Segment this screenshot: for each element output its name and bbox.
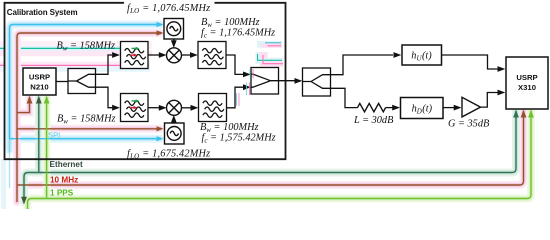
SPI net halo [10, 25, 161, 151]
h_D(t) box U2 [401, 98, 444, 119]
SPI arrow into oscillator O2 [157, 136, 164, 141]
wire N210 to splitter S1 [56, 81, 68, 83]
USRP N210 box [23, 68, 56, 95]
overlay magenta line (lower signal path) [0, 64, 149, 66]
tiny colored passband marks in F3 [132, 100, 137, 102]
svg-text:X310: X310 [518, 83, 536, 92]
wire h_D to amplifier [443, 107, 454, 109]
attenuator resistor R1 (L = 30dB) [358, 103, 386, 111]
svg-text:fc = 1,575.42MHz: fc = 1,575.42MHz [202, 132, 276, 144]
wire oscillator O1 down into mixer M1 [173, 39, 175, 42]
filter F1 [121, 42, 149, 69]
1 PPS arrow up into USRP X310 [528, 110, 534, 118]
10 MHz net halo [17, 33, 524, 202]
svg-text:1 PPS: 1 PPS [50, 189, 74, 198]
splitter S1 [68, 69, 96, 94]
10 MHz arrow into oscillator O2 [157, 126, 164, 131]
oscillator O1 [164, 19, 184, 40]
svg-text:G = 35dB: G = 35dB [448, 118, 490, 129]
combiner C1 [251, 68, 279, 95]
svg-text:fLO = 1,076.45MHz: fLO = 1,076.45MHz [127, 3, 210, 15]
Ethernet arrow up into USRP N210 [36, 96, 42, 104]
svg-text:L = 30dB: L = 30dB [353, 115, 394, 126]
overlay teal line (upper signal path) [0, 47, 147, 49]
SPI arrow into oscillator O1 [157, 22, 164, 27]
svg-text:Calibration System: Calibration System [7, 8, 78, 17]
wire S1 lower out to filter F3 [96, 87, 113, 108]
svg-text:USRP: USRP [516, 73, 537, 82]
1 PPS arrow up into USRP N210 [44, 96, 50, 104]
Ethernet net (dark green) [24, 98, 516, 199]
filter F4 [199, 94, 227, 122]
svg-text:10 MHz: 10 MHz [50, 176, 78, 185]
oscillator O2 [165, 123, 185, 144]
filter F2 [198, 42, 226, 69]
10 MHz arrow up into USRP X310 [521, 110, 527, 118]
wire S2 upper to h_U [331, 55, 394, 75]
wire M2 to filter F4 [181, 107, 191, 109]
10 MHz net (dark red-brown) [17, 33, 524, 202]
svg-text:N210: N210 [30, 83, 48, 92]
wire F2 to combiner upper input [226, 55, 243, 74]
wire combiner to splitter S2 (crosses frame) [279, 80, 296, 82]
1 PPS net (green) [28, 98, 532, 210]
wire F4 to combiner lower input [227, 87, 244, 108]
calibration system dashed frame [5, 3, 286, 159]
10 MHz arrow up into USRP N210 [27, 96, 33, 104]
svg-text:hU(t): hU(t) [411, 50, 432, 62]
wire F3 to mixer M2 [148, 107, 160, 109]
10 MHz arrow into oscillator O1 [157, 30, 164, 35]
svg-text:hD(t): hD(t) [412, 103, 433, 115]
wire oscillator O2 up into mixer M2 [173, 120, 175, 123]
wire h_U to X310 upper input [442, 55, 499, 69]
wire M1 to filter F2 [181, 54, 191, 56]
wire amplifier to X310 lower input [481, 93, 499, 108]
mixer M2 [167, 100, 182, 115]
mixer M1 [167, 48, 182, 63]
svg-text:Ethernet: Ethernet [50, 160, 83, 169]
tiny colored passband marks in F1 [132, 47, 137, 49]
filter F3 [121, 94, 149, 122]
Ethernet arrow up into USRP X310 [513, 110, 519, 118]
wire attenuator to h_D [386, 107, 393, 109]
svg-text:SPI: SPI [48, 130, 60, 139]
h_U(t) box U1 [402, 45, 442, 65]
wire S1 upper out to filter F1 [96, 55, 113, 74]
amplifier A1 (G = 35dB) [462, 97, 481, 117]
svg-text:fLO = 1,675.42MHz: fLO = 1,675.42MHz [127, 148, 210, 160]
splitter S2 [303, 68, 331, 96]
1 PPS net halo [28, 98, 532, 208]
Ethernet net halo [24, 98, 516, 202]
overlay ribbon halos (pale signal-path highlights) [0, 41, 283, 209]
svg-text:USRP: USRP [29, 73, 50, 82]
overlay tick marks at combiner inputs [249, 69, 251, 78]
wire F1 to mixer M1 [148, 54, 160, 56]
USRP X310 box [506, 57, 548, 109]
Ethernet arrow down (to host) [21, 197, 27, 205]
wire S2 lower to attenuator [331, 88, 358, 107]
SPI net (cyan) [10, 25, 158, 189]
svg-text:fc = 1,176.45MHz: fc = 1,176.45MHz [201, 28, 275, 40]
